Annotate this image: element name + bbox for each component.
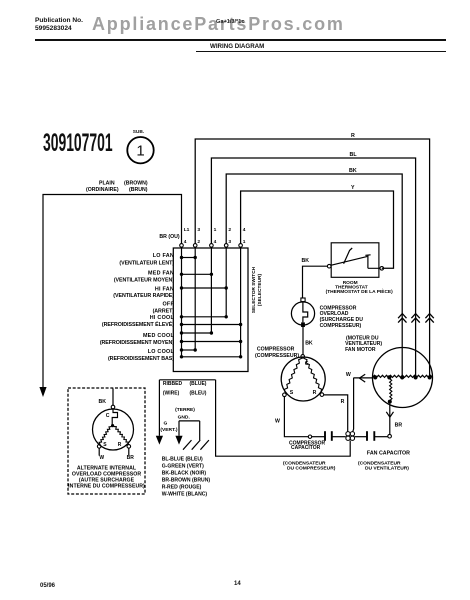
svg-text:BK: BK <box>302 258 310 264</box>
svg-text:W: W <box>99 455 104 461</box>
svg-text:CAPACITOR: CAPACITOR <box>291 445 321 451</box>
svg-text:BR: BR <box>395 422 403 428</box>
svg-text:1: 1 <box>243 239 246 245</box>
svg-text:COMPRESSEUR): COMPRESSEUR) <box>320 323 362 329</box>
svg-text:BK-BLACK (NOIR): BK-BLACK (NOIR) <box>162 470 207 476</box>
svg-text:(REFROIDISSEMENT BAS): (REFROIDISSEMENT BAS) <box>108 356 174 362</box>
svg-text:(REFROIDISSEMENT MOYEN): (REFROIDISSEMENT MOYEN) <box>100 340 174 346</box>
svg-text:RIBBED: RIBBED <box>163 381 183 387</box>
svg-text:W-WHITE (BLANC): W-WHITE (BLANC) <box>162 492 208 498</box>
svg-text:BL: BL <box>350 152 358 158</box>
svg-text:BR: BR <box>127 455 135 461</box>
svg-text:(VENTILATEUR LENT): (VENTILATEUR LENT) <box>119 260 174 266</box>
svg-text:(VERT.): (VERT.) <box>160 427 177 433</box>
svg-text:BK: BK <box>305 340 313 346</box>
svg-text:(REFROIDISSEMENT ÉLEVÉ): (REFROIDISSEMENT ÉLEVÉ) <box>102 320 174 328</box>
svg-text:Y: Y <box>351 185 355 191</box>
svg-text:3: 3 <box>228 239 231 245</box>
svg-text:1: 1 <box>214 227 217 233</box>
svg-text:SELECTOR SWITCH: SELECTOR SWITCH <box>251 266 257 313</box>
svg-text:4: 4 <box>214 239 217 245</box>
svg-text:R: R <box>118 442 122 448</box>
svg-text:OFF: OFF <box>162 302 174 308</box>
svg-text:G: G <box>163 421 167 427</box>
svg-text:INTERNE DU COMPRESSEUR): INTERNE DU COMPRESSEUR) <box>68 483 145 489</box>
svg-text:(TERRE): (TERRE) <box>175 407 195 413</box>
svg-text:(VENTILATEUR MOYEN): (VENTILATEUR MOYEN) <box>114 277 174 283</box>
svg-text:MED FAN: MED FAN <box>148 270 174 276</box>
svg-text:W: W <box>346 372 351 378</box>
svg-text:(ARRET): (ARRET) <box>153 308 175 314</box>
svg-text:(BLEU): (BLEU) <box>190 390 207 396</box>
svg-text:4: 4 <box>184 239 187 245</box>
svg-text:S: S <box>103 442 107 448</box>
svg-text:R: R <box>351 133 355 139</box>
svg-text:R: R <box>313 390 317 396</box>
svg-text:2: 2 <box>197 239 200 245</box>
svg-text:DU VENTILATEUR): DU VENTILATEUR) <box>365 466 409 472</box>
svg-text:FAN MOTOR: FAN MOTOR <box>345 347 376 353</box>
svg-text:BK: BK <box>349 168 357 174</box>
svg-text:G-GREEN (VERT): G-GREEN (VERT) <box>162 463 204 469</box>
svg-text:(BLUE): (BLUE) <box>190 381 207 387</box>
svg-text:HI FAN: HI FAN <box>155 286 174 292</box>
svg-text:(BROWN): (BROWN) <box>124 181 148 187</box>
svg-text:(BRUN): (BRUN) <box>129 187 148 193</box>
svg-text:W: W <box>275 418 280 424</box>
svg-text:BR (OU): BR (OU) <box>159 234 179 240</box>
svg-text:COMPRESSOR: COMPRESSOR <box>257 347 295 353</box>
svg-text:LO FAN: LO FAN <box>153 253 174 259</box>
svg-text:(VENTILATEUR RAPIDE): (VENTILATEUR RAPIDE) <box>113 293 174 299</box>
svg-text:BL-BLUE (BLEU): BL-BLUE (BLEU) <box>162 456 203 462</box>
svg-text:(CONDENSATEUR: (CONDENSATEUR <box>283 460 326 466</box>
svg-text:S: S <box>290 390 294 396</box>
svg-text:R-RED (ROUGE): R-RED (ROUGE) <box>162 485 202 491</box>
svg-text:R: R <box>341 399 345 405</box>
svg-text:(COMPRESSEUR): (COMPRESSEUR) <box>255 353 299 359</box>
svg-text:(ORDINAIRE): (ORDINAIRE) <box>86 187 119 193</box>
svg-text:GND.: GND. <box>178 415 191 421</box>
svg-text:BK: BK <box>99 399 107 405</box>
svg-text:C: C <box>106 413 110 419</box>
svg-text:DU COMPRESSEUR): DU COMPRESSEUR) <box>287 466 336 472</box>
svg-text:3: 3 <box>197 227 200 233</box>
svg-text:MED COOL: MED COOL <box>143 333 175 339</box>
svg-text:1: 1 <box>136 143 144 160</box>
svg-text:FAN CAPACITOR: FAN CAPACITOR <box>367 451 410 457</box>
svg-text:(SELECTEUR): (SELECTEUR) <box>257 273 263 306</box>
svg-text:L1: L1 <box>184 227 190 233</box>
svg-text:HI COOL: HI COOL <box>150 315 175 321</box>
svg-text:PLAIN: PLAIN <box>99 181 115 187</box>
svg-text:(WIRE): (WIRE) <box>163 390 180 396</box>
svg-text:BR-BROWN (BRUN): BR-BROWN (BRUN) <box>162 477 211 483</box>
svg-text:LO COOL: LO COOL <box>148 349 175 355</box>
svg-text:4: 4 <box>243 227 246 233</box>
svg-text:2: 2 <box>228 227 231 233</box>
svg-text:(CONDENSATEUR: (CONDENSATEUR <box>358 460 401 466</box>
